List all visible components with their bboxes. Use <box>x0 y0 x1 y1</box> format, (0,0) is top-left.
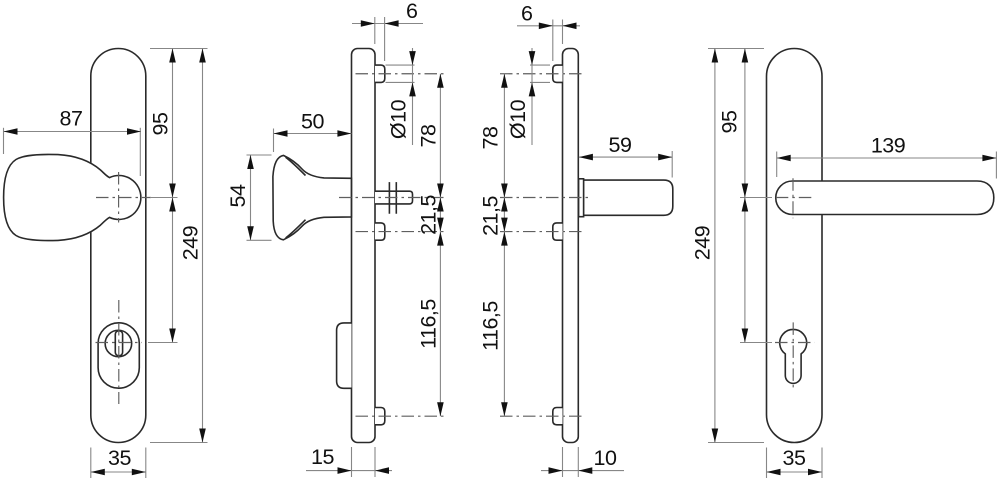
dimension 249 (view 1) <box>202 49 204 443</box>
dimension 116,5 (view 2) <box>439 232 441 417</box>
dimension 6 (view 3) <box>552 20 554 62</box>
svg-text:54: 54 <box>226 184 250 207</box>
dimension 21,5 (view 3) <box>503 198 505 232</box>
svg-text:35: 35 <box>783 446 806 470</box>
knob centerline vertical <box>118 172 120 223</box>
screw boss middle (side view, knob side) <box>375 223 385 240</box>
screw boss bottom (side view, lever side) <box>553 408 563 425</box>
svg-text:95: 95 <box>149 112 173 135</box>
dimension 95 (view 4) <box>744 49 746 198</box>
centerline bottom screw (view 3) <box>500 415 584 417</box>
backplate (lever side, front view) <box>767 49 823 443</box>
spindle (side view) <box>375 191 413 204</box>
screw boss bottom (side view, knob side) <box>375 408 385 425</box>
dimension 59 (view 3) <box>671 151 673 178</box>
svg-text:35: 35 <box>108 446 131 470</box>
dimension 15 (view 2) <box>351 447 353 477</box>
svg-text:116,5: 116,5 <box>478 301 502 351</box>
svg-text:78: 78 <box>416 124 440 147</box>
extension line cylinder centre (view 4) <box>740 342 772 344</box>
dimension 54 (view 2) <box>247 154 272 156</box>
svg-text:59: 59 <box>609 133 632 157</box>
extension line top (view 1) <box>150 48 208 50</box>
cylinder centerline vertical <box>118 300 120 404</box>
svg-text:Ø10: Ø10 <box>506 99 530 139</box>
svg-text:249: 249 <box>691 226 715 260</box>
cylinder centerline horizontal <box>96 342 143 344</box>
dimension diameter 10 (view 2) <box>386 64 415 66</box>
euro profile keyhole <box>780 329 807 383</box>
svg-text:Ø10: Ø10 <box>387 99 411 139</box>
backplate (knob side, side view) <box>352 49 376 443</box>
spindle washer lines <box>388 182 390 214</box>
lever neck centerline vertical <box>792 178 794 218</box>
svg-text:116,5: 116,5 <box>417 299 441 349</box>
dimension 6 (view 2) <box>374 17 376 44</box>
dimension 139 (view 4) <box>776 152 778 178</box>
dimension 95 (view 1) <box>172 49 174 198</box>
extension line lever centre (view 4) <box>740 197 772 199</box>
knob face contour top <box>286 157 306 175</box>
centerline lever (view 3) <box>500 197 592 199</box>
dimension 35 (view 4) <box>766 448 768 479</box>
dimension 249 (view 4) <box>714 49 716 443</box>
keyway slot <box>115 331 122 356</box>
dimension 50 (view 2) <box>273 129 275 153</box>
svg-text:95: 95 <box>718 110 742 133</box>
extension line knob centre (view 1) <box>150 197 178 199</box>
svg-text:15: 15 <box>311 445 334 469</box>
backplate (lever side, side view) <box>563 49 579 443</box>
svg-text:78: 78 <box>478 126 502 149</box>
lever neck centerline horizontal <box>776 197 814 199</box>
dimension 78 (view 2) <box>439 74 441 198</box>
backplate (knob side, front view) <box>91 49 146 443</box>
svg-text:87: 87 <box>60 106 83 130</box>
cylinder cover bump (side view) <box>337 323 352 388</box>
centerline bottom screw (view 2) <box>356 415 445 417</box>
svg-text:6: 6 <box>406 0 418 23</box>
knob face contour bottom <box>286 220 306 238</box>
keyhole centerline horizontal <box>775 342 815 344</box>
dimension 10 (view 3) <box>562 447 564 477</box>
svg-text:21,5: 21,5 <box>417 195 441 235</box>
dimension 35 (view 1) <box>90 448 92 479</box>
keyhole centerline vertical <box>792 322 794 390</box>
knob centerline horizontal <box>96 197 151 199</box>
dimension 87 (knob width) <box>3 128 5 154</box>
svg-text:6: 6 <box>521 2 533 26</box>
knob (side view) <box>273 155 352 239</box>
screw boss middle (side view, lever side) <box>553 223 563 240</box>
lever collar (side view) <box>579 179 584 217</box>
lever grip (side view) <box>583 180 672 215</box>
screw boss top (side view, lever side) <box>553 65 563 82</box>
svg-text:139: 139 <box>871 134 905 158</box>
svg-text:10: 10 <box>594 446 617 470</box>
cylinder core circle <box>105 330 131 357</box>
lever handle (front view) <box>776 181 994 215</box>
centerline middle screw (view 3) <box>500 231 584 233</box>
screw boss top (side view, knob side) <box>375 65 385 82</box>
centerline top screw (view 3) <box>500 73 584 75</box>
extension line cylinder centre (view 1) <box>148 342 178 344</box>
extension line top (view 4) <box>708 48 764 50</box>
dimension lever centre to cylinder (view 4) <box>744 198 746 343</box>
centerline top screw (view 2) <box>356 73 446 75</box>
centerline middle screw (view 2) <box>356 231 446 233</box>
cylinder escutcheon oval <box>98 323 139 388</box>
centerline spindle (view 2) <box>339 197 445 199</box>
extension line bottom (view 1) <box>150 442 208 444</box>
svg-text:249: 249 <box>179 226 203 260</box>
dimension 21,5 (view 2) <box>439 198 441 232</box>
svg-text:50: 50 <box>301 109 324 133</box>
dimension 78 (view 3) <box>503 74 505 198</box>
dimension knob centre to cylinder (view 1) <box>172 198 174 343</box>
dimension diameter 10 (view 3) <box>530 64 550 66</box>
knob (front view) <box>4 154 141 240</box>
svg-text:21,5: 21,5 <box>478 196 502 236</box>
extension line bottom (view 4) <box>708 442 764 444</box>
dimension 116,5 (view 3) <box>503 232 505 417</box>
